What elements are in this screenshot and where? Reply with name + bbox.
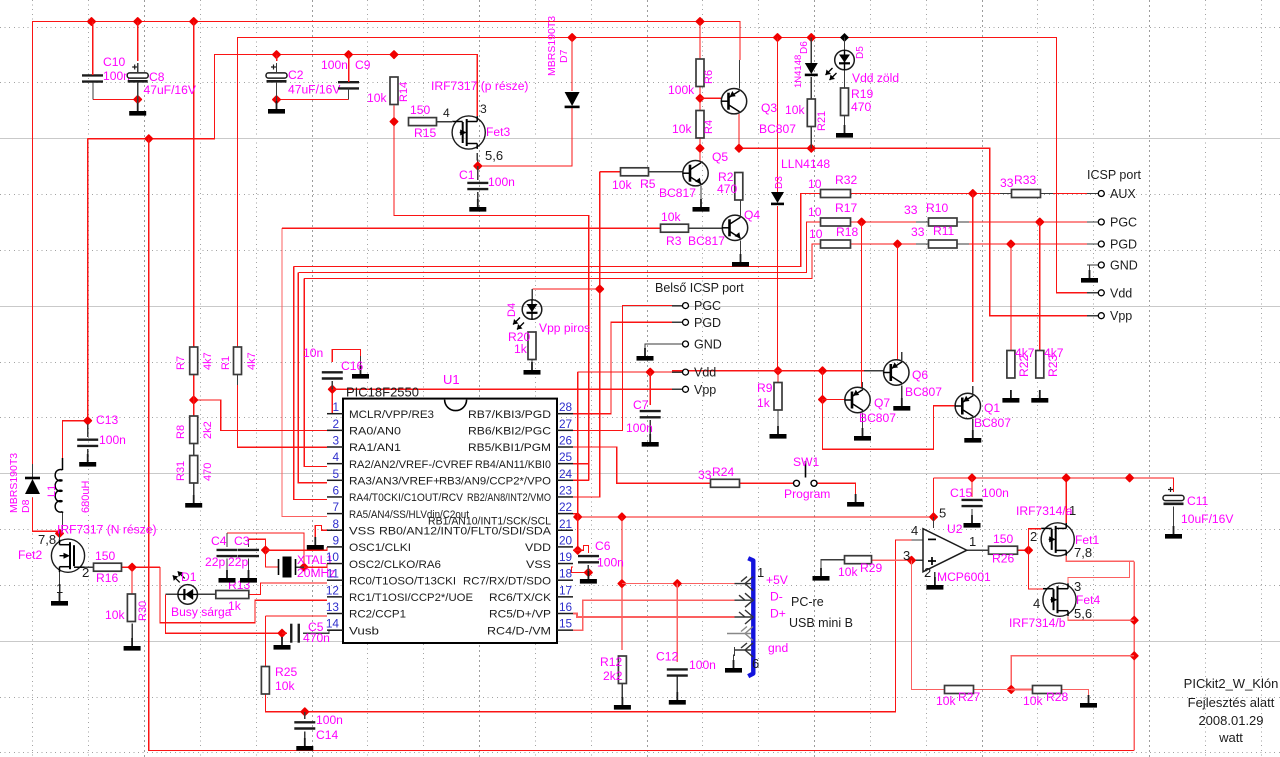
USB pin arrow y=600.2 [735,599,752,601]
resistor R9 1k [774,383,782,411]
ground Q5 [693,199,710,212]
pin 15 [557,629,573,631]
wire R16 right [122,566,161,568]
svg-text:10: 10 [326,550,340,564]
wire C14 to ground [304,732,306,741]
wire wire A down to D8 [32,138,34,478]
node pin3 node [907,555,917,565]
wire Z link to Fet4 drain [1068,561,1130,583]
svg-text:4k7: 4k7 [246,352,258,370]
svg-text:C9: C9 [355,58,371,72]
wire internal Vdd net vertical [577,372,579,550]
node int PGC terminal [683,303,689,309]
wire ext Vpp stub [1087,315,1098,317]
capacitor C9 100n [338,82,359,88]
IC U1 PIC18F2550 [343,399,557,643]
wire R26 right [1018,549,1029,551]
svg-text:RC6/TX/CK: RC6/TX/CK [489,592,551,604]
wire Q6 collector to ground [901,385,903,400]
node C-C2 [272,50,282,60]
svg-text:OSC1/CLKI: OSC1/CLKI [349,542,411,554]
wire Q3 emitter/R2 node to ICSP Vpp [739,114,1087,316]
svg-text:2: 2 [924,565,931,580]
svg-text:C2: C2 [288,68,304,82]
wire Q5 emitter lead [700,186,702,199]
wire R6 top [699,22,701,60]
pin 20 [557,546,573,548]
svg-text:BC807: BC807 [905,385,942,399]
pin 22 [557,513,573,515]
USB pin arrow y=617 [735,616,752,618]
node C6 bottom node [584,568,594,578]
ground C16 [352,366,369,379]
svg-text:R27: R27 [958,690,980,704]
svg-text:Q7: Q7 [874,396,890,410]
node R14-R15 [389,117,399,127]
svg-text:D3: D3 [774,176,785,189]
svg-text:2008.01.29: 2008.01.29 [1198,713,1263,728]
node R7-R8 [189,395,199,405]
svg-text:20: 20 [559,533,573,547]
svg-text:150: 150 [95,549,115,563]
svg-text:6: 6 [332,483,339,497]
svg-text:100n: 100n [316,713,343,727]
wire D7 cathode [571,38,573,92]
node L1-D8-Fet2 [55,529,65,539]
wire ICSP GND hook [1090,265,1099,270]
wire R5 to Q5 base [648,171,683,173]
node int Vpp terminal [683,386,689,392]
svg-text:1N4148: 1N4148 [793,55,804,88]
svg-text:R10: R10 [926,201,948,215]
svg-text:R30: R30 [137,601,149,621]
wire Fet2 gate node to pin12 [160,567,327,623]
pin 2 [327,429,343,431]
pin 16 [557,613,573,615]
svg-text:150: 150 [410,103,430,117]
pin 27 [557,429,573,431]
svg-text:10k: 10k [612,178,632,192]
wire AUX bus row to R32 [294,194,821,267]
resistor R25 10k [261,667,269,695]
transistor Q5 BC817 [683,161,708,186]
wire R10 right lead [957,221,969,223]
ground USB [725,660,742,673]
svg-text:D1: D1 [181,570,197,584]
wire C4 top lead [226,533,228,547]
node R9 node [773,366,783,376]
USB pin arrow y=633.5 [727,633,751,635]
svg-text:7,8: 7,8 [38,532,56,547]
resistor R12 2k2 [618,656,626,684]
pin 11 [327,579,343,581]
wire C3 to ground [248,559,250,573]
svg-text:PGD: PGD [694,316,721,330]
svg-text:USB mini B: USB mini B [789,616,853,630]
svg-text:C14: C14 [316,728,338,742]
svg-text:IRF7314/a: IRF7314/a [1016,504,1073,518]
wire PGC to Q7 emitter [861,222,863,388]
LED D4 Vpp red [513,300,542,330]
resistor R21 10k [807,99,815,127]
wire PGD row R18-R11 [851,243,917,245]
svg-text:D8: D8 [20,499,32,513]
svg-text:BC807: BC807 [974,416,1011,430]
capacitor C15 100n [962,500,983,506]
svg-text:RB2/AN8/INT2/VMO: RB2/AN8/INT2/VMO [467,492,551,504]
wire pin3 down to R27 [912,560,945,689]
svg-text:10: 10 [808,177,822,191]
resistor R16 [94,563,122,571]
svg-text:C3: C3 [234,534,250,548]
svg-text:C4: C4 [211,534,227,548]
svg-text:R6: R6 [703,70,715,84]
svg-text:RA3/AN3/VREF+: RA3/AN3/VREF+ [349,476,440,488]
svg-text:10: 10 [808,205,822,219]
wire R13 to pin11 [249,583,327,595]
svg-text:RC5/D+/VP: RC5/D+/VP [489,609,551,621]
svg-text:7: 7 [332,500,339,514]
ground Fet2 [51,593,68,606]
node AUX-Q1e [968,189,978,199]
svg-text:Q1: Q1 [984,401,1000,415]
resistor R10 [929,218,958,226]
node ext PGD terminal [1098,241,1104,247]
capacitor C8 47uF/16V [127,65,148,82]
ground Q4 [732,254,749,267]
resistor R30 10k [127,594,135,622]
node Fet4 source tap [1129,615,1139,625]
svg-text:BC807: BC807 [759,122,796,136]
ground ext ICSP [1081,270,1098,283]
svg-text:RB3/AN9/CCP2*/VPO: RB3/AN9/CCP2*/VPO [439,476,551,488]
svg-text:BC817: BC817 [659,186,696,200]
wire D8 cathode lead [32,464,34,478]
svg-text:21: 21 [559,517,572,531]
svg-text:3: 3 [1074,579,1081,594]
svg-text:6: 6 [752,656,759,671]
svg-text:33: 33 [698,468,712,482]
node R27-R28 [1006,685,1016,695]
node PGD-Q6e [893,239,903,249]
wire pin19 to C6 bottom [571,567,588,573]
svg-text:OSC2/CLKO/RA6: OSC2/CLKO/RA6 [349,559,441,571]
svg-text:22p: 22p [228,555,248,569]
svg-text:R28: R28 [1046,690,1068,704]
wire pin26 to R24 [573,447,711,483]
svg-text:C10: C10 [103,55,125,69]
svg-text:23: 23 [559,483,573,497]
svg-text:1: 1 [757,565,764,580]
wire R30 to ground [131,624,133,641]
svg-text:RB6/KBI2/PGC: RB6/KBI2/PGC [468,426,551,438]
wire pin16 to USB D+ [573,614,735,618]
svg-text:SW1: SW1 [793,455,819,469]
svg-text:10k: 10k [936,694,956,708]
svg-text:RB5/KBI1/PGM: RB5/KBI1/PGM [468,442,551,454]
svg-text:3: 3 [480,102,487,116]
wire C5 right to pin14 [303,630,343,633]
resistor R20 1k [528,332,536,360]
svg-text:4: 4 [1033,596,1040,611]
svg-text:R5: R5 [640,177,656,191]
node R28 link tap [1129,651,1139,661]
wire C7 to ground [649,420,651,436]
wire R7 top from rail A [193,22,195,348]
pin 5 [327,479,343,481]
svg-text:33: 33 [911,225,925,239]
node Fet3 source node [473,161,483,171]
svg-text:18: 18 [559,567,573,581]
svg-text:17: 17 [559,583,572,597]
wire Q4 emitter to ground [740,241,742,257]
ground R22 [1002,390,1019,403]
svg-text:D6: D6 [799,41,810,54]
resistor R17 [821,218,851,226]
resistor R27 [945,686,974,694]
resistor R31 470 [190,456,198,484]
svg-text:100n: 100n [321,58,348,72]
wire ext AUX stub [1087,193,1098,195]
wire R27/R28 node link [1011,656,1134,690]
node A-C10 [87,17,97,27]
wire ext PGD stub [1087,243,1098,245]
wire pin28 to internal PGD [573,322,672,413]
wire D6 top lead [810,38,812,67]
ground R9 [770,426,787,439]
node OSC2 node [299,562,309,572]
node C13 top [83,416,93,426]
svg-text:RA0/AN0: RA0/AN0 [349,426,401,438]
wire C4 to ground [226,559,228,573]
wire ext GND stub [1087,264,1098,266]
node D5 anode tap [840,33,849,42]
svg-text:5: 5 [939,506,946,521]
svg-text:10k: 10k [275,679,295,693]
svg-text:PC-re: PC-re [791,595,824,609]
svg-text:22p: 22p [205,555,225,569]
svg-text:R16: R16 [96,571,118,585]
wire Vdd rail drop to op-amp V+ [933,478,935,517]
ground R12 [614,697,631,710]
svg-text:C15: C15 [950,486,972,500]
pin 3 [327,446,343,448]
node R26-Fet gates [1024,545,1034,555]
svg-text:VDD: VDD [525,542,551,554]
node C7 node [645,367,655,377]
USB pin arrow y=583.6 [735,583,752,585]
svg-text:100n: 100n [488,175,515,189]
wire Fet1 source to Vdd rail [1065,478,1067,523]
svg-text:R24: R24 [712,465,734,479]
wire internal Vdd row [578,371,672,373]
wire pin3 lead [912,559,924,561]
wire PGD bus row to R18 [304,244,820,278]
svg-text:IRF7317 (p része): IRF7317 (p része) [431,79,528,93]
diode D3 [771,192,784,204]
wire C13 top lead2 [87,424,89,437]
capacitor C5 470n [291,624,299,643]
capacitor C11 10uF/16V [1163,487,1184,504]
svg-text:4: 4 [332,450,339,464]
capacitor C13 100n [77,440,98,446]
wire Q7 collector to ground [862,413,864,430]
svg-text:U1: U1 [443,372,460,387]
node A-R6 [695,17,705,27]
svg-text:100n: 100n [597,556,624,570]
svg-text:Q4: Q4 [744,208,760,222]
node ext Vpp terminal [1098,313,1104,319]
wire R9 to ground [777,410,779,428]
svg-text:470: 470 [717,182,737,196]
svg-text:PGC: PGC [694,299,721,313]
wire PGC bus row to R17 [298,222,820,273]
pin 13 [327,613,343,615]
svg-text:100n: 100n [99,433,126,447]
pin 26 [557,446,573,448]
resistor R26 [989,546,1018,554]
svg-text:3: 3 [903,548,910,563]
transistor Fet1 IRF7314/a [1041,523,1074,556]
wire C7 top lead [649,372,651,405]
pin 7 [327,513,343,515]
wire D5-R19 link [844,70,846,88]
wire pin1 to C16 node [331,389,333,413]
capacitor C7 100n [640,411,661,417]
resistor R32 [821,190,851,198]
wire pin4 lead [896,539,923,541]
node pin22-x622 [617,512,627,522]
ground C5 [274,637,291,650]
svg-text:Fet4: Fet4 [1076,593,1100,607]
wire Q6 base lead [864,370,884,372]
node Fet1 tap [1061,473,1071,483]
svg-text:1k: 1k [757,396,771,410]
svg-text:24: 24 [559,467,573,481]
svg-text:C13: C13 [96,413,118,427]
svg-text:BC807: BC807 [859,411,896,425]
node B-D7 [567,33,577,43]
svg-text:IRF7317 (N része): IRF7317 (N része) [57,523,156,537]
svg-text:25: 25 [559,450,573,464]
ground R20 [524,362,541,375]
ground C11 [1165,526,1182,539]
pin 23 [557,496,573,498]
wire PGC to R23 pulldown [1039,222,1041,351]
svg-text:470n: 470n [303,631,330,645]
wire C13 to ground [87,449,89,461]
node A-R7 [189,17,199,27]
svg-text:100n: 100n [689,658,716,672]
wire op-amp pin5 stub [933,517,935,528]
wire C4/OSC2 wire [227,533,304,567]
ground C1 [469,199,486,212]
svg-text:Fet3: Fet3 [486,125,510,139]
svg-text:D-: D- [770,590,783,604]
ground op-amp [926,577,943,590]
wire +5V to C13 and L1 top [63,139,88,458]
node int GND terminal [683,341,689,347]
wire R5 left lead [600,171,621,173]
node +5V row tap [617,579,627,589]
wire Vpp net row to internal ICSP [332,388,672,390]
svg-text:C8: C8 [149,70,165,84]
wire R9 top lead [777,371,779,383]
capacitor C14 100n [294,722,315,728]
wire D1 cathode lead [166,593,178,595]
svg-text:D7: D7 [558,49,570,63]
svg-text:1k: 1k [228,599,242,613]
capacitor C2 47uF/16V [266,65,287,82]
svg-text:R25: R25 [275,665,297,679]
wire D1 anode to R13 [198,593,216,595]
svg-text:C6: C6 [595,539,611,553]
wire R31 to ground [193,482,195,497]
svg-text:MCLR/VPP/RE3: MCLR/VPP/RE3 [349,409,434,421]
resistor R8 2k2 [190,416,198,444]
wire C2-C9 bottom link [277,99,349,101]
svg-text:680uH: 680uH [80,481,92,513]
wire int PGD stub [672,321,683,323]
node B-D6 [806,33,816,43]
svg-text:VSS: VSS [349,525,376,537]
svg-text:PIC18F2550: PIC18F2550 [346,385,419,400]
ground R23 [1031,390,1048,403]
wire R30 top lead [131,567,133,594]
svg-text:10k: 10k [105,608,125,622]
svg-text:PGC: PGC [1110,216,1137,230]
svg-text:D5: D5 [855,46,866,59]
svg-text:D4: D4 [506,303,518,317]
svg-text:7,8: 7,8 [1074,545,1092,560]
svg-text:MBRS190T3: MBRS190T3 [8,453,20,513]
resistor R11 [929,240,958,248]
svg-text:ICSP port: ICSP port [1087,168,1141,182]
wire D1 to ground/C5 row [166,594,283,633]
wire R27 to R28 row [974,689,1012,691]
svg-text:PICkit2_W_Klón: PICkit2_W_Klón [1184,676,1279,691]
wire Vdd row to R9/Q6 base [672,370,864,372]
svg-text:Vusb: Vusb [349,625,379,637]
node C-feedback [144,134,154,144]
wire +5V feed down left side and bottom rail [149,139,1134,751]
svg-text:8: 8 [332,517,339,531]
wire +5V row to USB [622,583,735,585]
capacitor C16 10n [322,372,343,378]
svg-text:100k: 100k [668,83,695,97]
wire C14 top lead [304,712,306,719]
wire Q3 collector lead [739,60,741,89]
svg-text:10k: 10k [785,103,805,117]
node MCLR node [327,384,337,394]
svg-text:2k2: 2k2 [603,669,623,683]
node C-C9 [344,50,354,60]
wire R8-R31 link [193,443,195,456]
ground Q1 [964,430,981,443]
node pin20 node [573,545,583,555]
svg-text:19: 19 [559,550,572,564]
svg-text:Fet2: Fet2 [18,548,42,562]
svg-text:470: 470 [851,100,871,114]
pin 12 [327,596,343,598]
svg-text:R14: R14 [398,82,410,102]
svg-text:Vdd: Vdd [694,366,716,380]
svg-text:VSS: VSS [526,559,552,571]
node C5-gnd node [277,628,287,638]
svg-text:R22: R22 [1017,355,1031,377]
wire C15 top lead [971,478,973,497]
svg-text:15: 15 [559,617,573,631]
